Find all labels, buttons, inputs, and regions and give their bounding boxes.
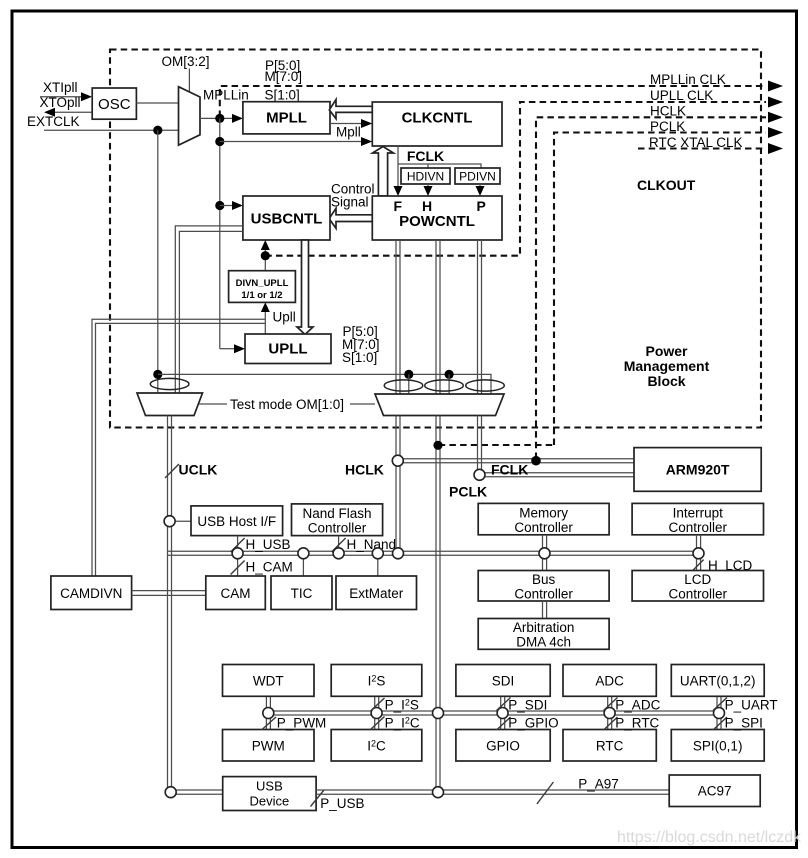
slash P_SPI [713, 717, 727, 730]
svg-text:RTC XTAL CLK: RTC XTAL CLK [649, 135, 743, 150]
wire USB host to CAM vertical [237, 536, 239, 576]
svg-text:MPLL: MPLL [266, 110, 307, 127]
svg-text:DMA 4ch: DMA 4ch [516, 635, 571, 650]
svg-text:HCLK: HCLK [650, 104, 686, 119]
wire I2S to I2C pair [375, 696, 379, 729]
open circle HCLK pair to device line [433, 787, 444, 798]
hollow arrow CLKCNTL to MPLL [329, 100, 372, 119]
svg-text:CAM: CAM [221, 586, 251, 601]
arrowhead into OSC [81, 92, 92, 101]
block USB Host I/F [191, 506, 283, 536]
junction dot test mode tap [153, 370, 162, 379]
ellipse test point F [384, 380, 423, 391]
block RTC [563, 730, 656, 762]
hollow arrow USBCNTL to UPLL [297, 240, 313, 335]
slash UCLK [165, 464, 179, 478]
slash P_SDI [497, 698, 511, 711]
svg-text:H_USB: H_USB [246, 537, 291, 552]
svg-text:P_I2S: P_I2S [385, 698, 419, 713]
slash P_RTC [604, 717, 618, 730]
arrowhead HCLK [768, 112, 783, 123]
wire bypass drop 1 [408, 374, 410, 394]
svg-text:CLKCNTL: CLKCNTL [402, 110, 473, 127]
arrowhead into UPLL [234, 344, 245, 353]
wire main clock vertical [219, 118, 221, 348]
wire EXTCLK vertical to test mux [157, 130, 159, 394]
arrowhead into MPLL [232, 114, 243, 123]
junction dot HCLK dashed tap [433, 441, 442, 450]
junction dot bypass 2 [445, 370, 454, 379]
ellipse test point P [466, 380, 505, 391]
ellipse test point left [150, 378, 189, 389]
svg-text:FCLK: FCLK [407, 148, 444, 164]
slash H_USB [231, 538, 245, 552]
open circle spine WDT [263, 708, 274, 719]
wire UPLL CLK dashed tap [265, 102, 766, 256]
wire HDIVN to POWCNTL [427, 184, 429, 187]
svg-text:ARM920T: ARM920T [666, 462, 730, 478]
junction dot EXTCLK tap [153, 126, 162, 135]
svg-text:Memory: Memory [519, 506, 568, 521]
open circle spine Memory [539, 548, 550, 559]
svg-text:Block: Block [647, 373, 685, 389]
svg-text:UPLL: UPLL [268, 341, 307, 358]
svg-text:USB Host I/F: USB Host I/F [197, 514, 276, 529]
wire ExtMater drop [377, 553, 379, 576]
wire USBCNTL to left test mux line b [179, 231, 243, 394]
block ADC [563, 665, 656, 697]
svg-text:HDIVN: HDIVN [407, 170, 444, 184]
svg-text:P_I2C: P_I2C [385, 716, 420, 731]
wire HCLK pair below mux [436, 416, 440, 793]
open circle FCLK crossover [474, 469, 485, 480]
oscillator OSC [92, 88, 136, 119]
slash P_I2C [371, 717, 385, 730]
slash P_USB [311, 790, 325, 807]
svg-text:PCLK: PCLK [449, 484, 487, 500]
open circle spine Nand [333, 548, 344, 559]
svg-text:ExtMater: ExtMater [349, 586, 404, 601]
wire OSC to input mux [136, 102, 178, 104]
svg-text:Controller: Controller [514, 587, 573, 602]
svg-text:Controller: Controller [669, 587, 728, 602]
wire PCLK dashed tap [554, 133, 766, 446]
junction dot bypass 1 [404, 370, 413, 379]
svg-text:M[7:0]: M[7:0] [265, 69, 303, 84]
block Arbitration DMA [478, 619, 609, 650]
controller POWCNTL [372, 196, 502, 240]
open circle spine FCLK pair end [393, 548, 404, 559]
open circle USB host tap [164, 516, 175, 527]
slash P_A97 [537, 782, 554, 804]
svg-text:CAMDIVN: CAMDIVN [60, 586, 122, 601]
svg-text:PDIVN: PDIVN [459, 170, 496, 184]
svg-text:TIC: TIC [291, 586, 313, 601]
svg-text:P_SDI: P_SDI [508, 698, 547, 713]
svg-text:RTC: RTC [596, 739, 624, 754]
svg-text:Mpll: Mpll [336, 125, 361, 140]
wire OM[3:2] select [188, 69, 190, 93]
svg-text:P_GPIO: P_GPIO [508, 716, 558, 731]
block CAMDIVN [51, 576, 132, 610]
svg-text:S[1:0]: S[1:0] [342, 350, 377, 365]
wire Memory to Bus pair [543, 535, 547, 571]
wire clock to USBCNTL [220, 205, 233, 207]
wire Bus to Arbitration pair [543, 601, 547, 619]
open circle UCLK to USB device [165, 787, 176, 798]
svg-text:SPI(0,1): SPI(0,1) [693, 739, 743, 754]
wire MPLLin CLK dashed tap [220, 86, 766, 117]
wire ADC to RTC pair [608, 696, 612, 729]
slash P_UART [713, 698, 727, 711]
wire test mode label right [350, 403, 375, 405]
svg-text:F: F [394, 198, 403, 214]
wire HCLK dashed tap [536, 117, 766, 459]
block USB Device [223, 777, 316, 811]
svg-text:PWM: PWM [252, 739, 285, 754]
junction dot HCLK dashed join [531, 456, 541, 466]
wire bypass drop 2 [448, 374, 450, 394]
block Memory Controller [478, 503, 609, 535]
svg-text:AC97: AC97 [698, 784, 732, 799]
svg-text:P_RTC: P_RTC [615, 716, 659, 731]
wire UPLL up to DIVN_UPLL [264, 309, 266, 334]
wire mux output to MPLL [200, 117, 233, 119]
divider HDIVN [401, 168, 450, 184]
wire P clock pair [478, 240, 482, 395]
block CAM [206, 576, 265, 610]
slash P_PWM [262, 717, 276, 730]
pll UPLL [245, 334, 331, 364]
slash H_CAM [231, 561, 245, 575]
svg-text:CLKOUT: CLKOUT [637, 177, 696, 193]
svg-text:WDT: WDT [253, 674, 284, 689]
svg-text:H: H [422, 198, 432, 214]
block I2S [331, 665, 422, 697]
arrowhead into USBCNTL bottom [261, 240, 270, 250]
svg-text:UART(0,1,2): UART(0,1,2) [680, 674, 756, 689]
arrowhead PCLK [768, 127, 783, 138]
svg-text:OSC: OSC [98, 96, 131, 113]
wire PCLK dashed jog from H bus [439, 444, 554, 446]
junction dot MPLLin [215, 114, 224, 123]
block Interrupt Controller [632, 503, 763, 535]
cpu ARM920T [634, 448, 761, 492]
arrowhead F into POWCNTL [394, 186, 403, 196]
block UART [671, 665, 764, 697]
block Nand Flash Controller [292, 504, 383, 536]
mux U3 right test mux [375, 394, 504, 416]
svg-text:P_A97: P_A97 [578, 777, 619, 792]
wire clock to UPLL [220, 348, 235, 350]
wire Interrupt to LCD pair [697, 535, 701, 571]
open circle spine ADC [604, 708, 615, 719]
arrowhead MPLLin CLK [768, 81, 783, 92]
slash P_I2S [371, 698, 385, 711]
svg-text:P_ADC: P_ADC [615, 698, 660, 713]
svg-text:XTIpll: XTIpll [43, 80, 78, 95]
block AC97 [669, 775, 760, 807]
wire test mode bypass line [158, 374, 491, 394]
svg-text:MPLLin: MPLLin [203, 88, 249, 103]
wire FCLK F line [397, 146, 399, 187]
wire H clock pair [436, 240, 440, 395]
wire EXTCLK to input mux [44, 129, 179, 131]
wire USB host tap [170, 520, 191, 522]
divider PDIVN [455, 168, 500, 184]
open circle spine TIC [298, 548, 309, 559]
wire test mode label left [199, 403, 227, 405]
wire HCLK bus to ARM920T [392, 459, 634, 463]
divider DIVN_UPLL [229, 271, 296, 303]
arrowhead P into POWCNTL [476, 186, 485, 196]
wire F clock pair [396, 240, 400, 395]
dashed clock-generation block boundary [110, 50, 761, 428]
wire UART to SPI pair [717, 696, 721, 729]
arrowhead into USBCNTL [232, 201, 243, 210]
svg-text:H_Nand: H_Nand [347, 537, 397, 552]
arrowhead into DIVN_UPLL [261, 302, 270, 312]
svg-text:P: P [477, 198, 486, 214]
wire FCLK branch [398, 164, 481, 168]
svg-text:GPIO: GPIO [486, 739, 520, 754]
arrowhead XTOpll [44, 108, 55, 117]
block SDI [456, 665, 550, 697]
svg-text:P_SPI: P_SPI [725, 716, 763, 731]
svg-text:MPLLin CLK: MPLLin CLK [650, 72, 726, 87]
wire Upll to CAMDIVN line a [92, 319, 265, 576]
svg-text:POWCNTL: POWCNTL [399, 213, 475, 230]
junction dot Upll tap [261, 251, 270, 260]
arrowhead H into POWCNTL [424, 186, 433, 196]
mux U1 input clock mux [179, 87, 201, 146]
open circle spine ExtMater [372, 548, 383, 559]
svg-text:USB: USB [256, 779, 283, 794]
slash H_Nand [332, 538, 346, 552]
wire WDT to PWM pair [266, 696, 270, 729]
hollow arrow POWCNTL to USBCNTL [329, 208, 372, 228]
wire Mpll output to CLKCNTL [330, 123, 362, 125]
open circle spine Interrupt [693, 548, 704, 559]
svg-text:Bus: Bus [532, 572, 556, 587]
wire XTIpll into OSC [40, 96, 82, 98]
open circle spine SDI [497, 708, 508, 719]
wire FCLK bus to ARM920T [474, 473, 634, 477]
controller CLKCNTL [372, 102, 502, 146]
svg-text:USBCNTL: USBCNTL [251, 211, 323, 228]
svg-text:SDI: SDI [492, 674, 515, 689]
svg-text:DIVN_UPLL: DIVN_UPLL [236, 278, 289, 289]
hollow arrow POWCNTL to CLKCNTL [373, 147, 394, 197]
pll MPLL [243, 102, 330, 134]
svg-text:LCD: LCD [684, 572, 711, 587]
wire USBCNTL to left test mux line a [175, 226, 243, 395]
block TIC [271, 576, 332, 610]
wire Nand to spine [338, 536, 340, 554]
svg-text:Arbitration: Arbitration [513, 620, 575, 635]
svg-text:1/1 or 1/2: 1/1 or 1/2 [241, 290, 282, 301]
svg-text:I2S: I2S [368, 674, 386, 689]
open circle spine UART [714, 708, 725, 719]
wire XTOpll out of OSC [55, 111, 92, 113]
arrowhead into CLKCNTL lower [361, 137, 372, 146]
svg-text:FCLK: FCLK [491, 462, 528, 478]
wire HCLK spine [168, 551, 699, 555]
svg-text:Controller: Controller [669, 520, 728, 535]
block GPIO [456, 730, 550, 762]
svg-text:I2C: I2C [367, 739, 386, 754]
wire USB device line right [316, 790, 669, 794]
svg-text:Power: Power [645, 343, 688, 359]
svg-text:XTOpll: XTOpll [40, 95, 81, 110]
wire USB device line left [171, 790, 223, 794]
arrowhead RTC XTAL CLK [768, 143, 783, 154]
controller USBCNTL [243, 196, 330, 240]
wire Upll to CAMDIVN line b [96, 323, 266, 576]
svg-text:H_CAM: H_CAM [246, 560, 293, 575]
svg-text:PCLK: PCLK [650, 119, 685, 134]
open circle spine USB host [232, 548, 243, 559]
open circle spine I2S [371, 708, 382, 719]
slash P_ADC [604, 698, 618, 711]
svg-text:EXTCLK: EXTCLK [27, 114, 80, 129]
wire FCLK pair below mux [396, 416, 400, 554]
wire UCLK pair [168, 416, 172, 793]
block LCD Controller [632, 571, 763, 602]
svg-text:S[1:0]: S[1:0] [265, 88, 300, 103]
svg-text:P_PWM: P_PWM [277, 716, 327, 731]
svg-text:Controller: Controller [308, 521, 367, 536]
block Bus Controller [478, 571, 609, 602]
open circle HCLK crossover [392, 455, 403, 466]
block I2C [331, 730, 422, 762]
block WDT [223, 665, 315, 697]
wire DIVN_UPLL to USBCNTL [264, 247, 266, 271]
wire PCLK spine [268, 711, 719, 715]
junction dot to CLKCNTL [215, 137, 224, 146]
svg-text:Controller: Controller [514, 520, 573, 535]
block ExtMater [336, 576, 417, 610]
slash P_GPIO [497, 717, 511, 730]
arrowhead Mpll into CLKCNTL [361, 119, 372, 128]
wire CAMDIVN to CAM [132, 591, 206, 596]
junction dot to USBCNTL [215, 201, 224, 210]
wire PCLK pair below mux [478, 416, 482, 476]
svg-text:P_UART: P_UART [725, 698, 778, 713]
ellipse test point H [425, 380, 464, 391]
svg-text:HCLK: HCLK [345, 462, 384, 478]
block SPI [671, 730, 764, 762]
wire clock to CLKCNTL [220, 141, 362, 143]
svg-text:Interrupt: Interrupt [673, 506, 724, 521]
wire TIC drop [302, 553, 304, 576]
arrowhead UPLL CLK [768, 97, 783, 108]
svg-text:https://blog.csdn.net/lczdk: https://blog.csdn.net/lczdk [617, 829, 802, 846]
svg-text:UCLK: UCLK [179, 462, 218, 478]
wire PDIVN to POWCNTL [479, 184, 481, 187]
svg-text:UPLL CLK: UPLL CLK [650, 88, 713, 103]
svg-text:P_USB: P_USB [320, 796, 364, 811]
svg-text:ADC: ADC [595, 674, 624, 689]
mux U2 left test mux [137, 393, 203, 416]
svg-text:Device: Device [250, 794, 290, 809]
wire RTC XTAL CLK dashed [638, 147, 766, 149]
wire SDI to GPIO pair [501, 696, 505, 729]
block PWM [223, 730, 315, 762]
svg-text:Management: Management [624, 358, 710, 374]
svg-text:Upll: Upll [273, 310, 296, 325]
svg-text:Nand Flash: Nand Flash [302, 506, 371, 521]
svg-text:OM[3:2]: OM[3:2] [162, 54, 210, 69]
slash H_LCD [690, 560, 704, 574]
svg-text:Test mode OM[1:0]: Test mode OM[1:0] [230, 397, 344, 412]
open circle spine HCLK pair crossing [433, 708, 444, 719]
